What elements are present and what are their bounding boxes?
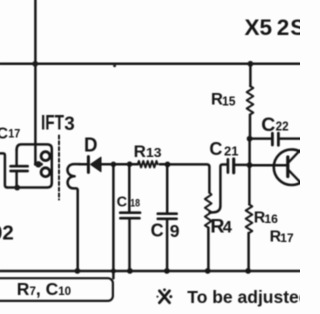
transistor collector line [289, 151, 300, 163]
svg-text:21: 21 [224, 144, 239, 158]
junction dot C19 to bus [164, 268, 170, 274]
diode D cathode lead [79, 163, 87, 166]
junction dot C18 node [127, 161, 133, 167]
IFT3 tank left side upper [15, 150, 18, 165]
svg-text:15: 15 [222, 94, 236, 108]
wire C19 node over and down to R4 [168, 164, 210, 192]
IFT3 secondary winding [67, 164, 80, 191]
diode D triangle [90, 157, 101, 172]
capacitor C21 left plate [227, 159, 230, 172]
junction dot R4 to bus [205, 268, 211, 274]
wire secondary bottom down to ground bus [76, 190, 79, 271]
ground bus bottom [0, 270, 300, 273]
junction dot supply to R15 [248, 61, 254, 67]
svg-text:18: 18 [130, 198, 140, 210]
capacitor C21 right plate [232, 159, 235, 173]
diode D cathode bar [87, 157, 90, 173]
IFT3 tank left side lower [15, 172, 18, 186]
svg-text:4: 4 [223, 219, 233, 237]
capacitor C19 top lead [166, 164, 169, 212]
svg-text:17: 17 [8, 128, 20, 140]
primary winding loop 2 [41, 168, 50, 177]
junction dot at ground bus x113 [111, 269, 116, 274]
junction dot base node [247, 162, 253, 168]
junction dot secondary to bus [75, 268, 81, 274]
wire base node to transistor base [250, 164, 287, 167]
resistor R15 zigzag [247, 86, 254, 115]
capacitor C21 right lead [235, 164, 249, 167]
junction dot C18 to bus [127, 268, 133, 274]
resistor R4 zigzag [205, 193, 212, 228]
capacitor C19 plates [158, 214, 177, 219]
IFT3 tank loop top [17, 144, 52, 150]
capacitor C22 right lead [280, 137, 300, 140]
svg-text:2S: 2S [277, 15, 300, 40]
svg-text:X5: X5 [245, 15, 273, 40]
junction dot top bus / vertical [32, 61, 38, 67]
IFT3 core dashed line [58, 136, 60, 200]
wire C22 node down to base node [248, 139, 251, 165]
IFT3 tank right side / primary [51, 149, 54, 183]
primary winding loop 1 [41, 152, 50, 161]
R7 C10 callout box [0, 278, 113, 301]
wire base node down to R16 [248, 165, 251, 204]
svg-text:22: 22 [276, 118, 289, 133]
speck on top bus [113, 64, 116, 67]
wire C18 node to R13 [130, 163, 138, 166]
svg-text:9: 9 [170, 221, 180, 241]
wire vertical from top edge down to IFT3 tap [34, 0, 37, 163]
capacitor C22 left lead [250, 137, 271, 140]
transistor X5 circle [274, 149, 310, 185]
svg-text:D: D [84, 134, 98, 156]
wire detector node down to R7 C10 box [112, 164, 115, 278]
capacitor C17 plates [11, 166, 28, 171]
wire R13 to C19 node [160, 163, 167, 166]
svg-text:IFT: IFT [41, 112, 64, 135]
wire detector node to C18 node [113, 163, 129, 166]
svg-text:13: 13 [146, 145, 162, 160]
IFT3 tank bottom [7, 183, 52, 188]
wire R16 to ground bus [247, 233, 250, 271]
svg-text:R: R [134, 142, 146, 161]
junction dot detector node [111, 162, 117, 168]
svg-text:16: 16 [264, 212, 278, 226]
capacitor C19 bottom lead [166, 220, 169, 271]
wire top supply bus [0, 63, 300, 66]
wire R4 to ground bus [207, 228, 210, 271]
junction dot R16 to bus [245, 268, 251, 274]
svg-text:02: 02 [0, 222, 14, 245]
capacitor C18 bottom lead [128, 219, 131, 271]
junction dot C19 node [165, 162, 171, 168]
diode D anode lead [101, 163, 113, 166]
svg-text:17: 17 [280, 231, 294, 245]
capacitor C18 top lead [128, 164, 131, 211]
transistor base bar [286, 157, 289, 177]
resistor R16 zigzag [246, 204, 253, 233]
svg-text:3: 3 [64, 113, 75, 135]
transistor emitter line [289, 170, 300, 181]
svg-text:C: C [261, 114, 275, 136]
capacitor C18 plates [120, 213, 140, 219]
junction dot primary tap [35, 161, 41, 167]
junction dot tank bottom C17 [14, 185, 20, 191]
svg-text:C: C [209, 139, 222, 159]
wire R15 to C22 node [249, 115, 252, 139]
junction dot C22 node [247, 136, 253, 142]
svg-text:R7, C10: R7, C10 [17, 279, 71, 299]
svg-text:C: C [151, 221, 164, 241]
svg-text:C: C [117, 195, 128, 211]
resistor R13 zigzag [138, 161, 158, 167]
primary tap stub [35, 163, 41, 166]
svg-text:C: C [0, 125, 9, 142]
capacitor C22 plates [272, 133, 278, 145]
wire supply to R15 [249, 64, 252, 86]
capacitor C21 left lead curving down into R4 [210, 165, 227, 213]
wire from left edge into tank bottom [0, 153, 7, 187]
svg-text:To be adjusted: To be adjusted [187, 287, 300, 307]
reference mark kome [159, 291, 169, 303]
